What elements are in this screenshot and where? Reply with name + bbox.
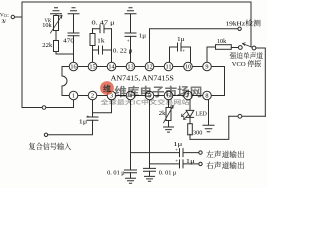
ground below 2k <box>164 121 174 133</box>
capacitor 1u left out <box>180 149 184 157</box>
capacitor 470 <box>68 33 79 36</box>
svg-text:强迫单声道: 强迫单声道 <box>230 51 264 60</box>
svg-text:0. 01 μ: 0. 01 μ <box>107 171 125 177</box>
svg-text:3V: 3V <box>2 20 7 25</box>
node open junction <box>238 114 242 118</box>
svg-text:LED: LED <box>196 112 207 118</box>
svg-text:0. 22 μ: 0. 22 μ <box>113 49 132 55</box>
svg-text:470: 470 <box>63 38 74 44</box>
svg-text:维: 维 <box>103 83 111 94</box>
pin 6 <box>164 91 173 100</box>
svg-text:1μ: 1μ <box>79 119 87 125</box>
ground top of pin13 column <box>125 8 136 33</box>
pin 8 <box>203 91 212 100</box>
pin 15 <box>88 62 97 71</box>
wire to left terminal <box>183 152 199 154</box>
pin 4 <box>126 91 135 100</box>
wire Vcc rail frame right <box>250 2 252 47</box>
wire left channel from pin4 <box>131 152 180 154</box>
svg-text:15: 15 <box>89 64 95 71</box>
svg-text:1μ: 1μ <box>139 34 146 40</box>
LED <box>189 100 191 111</box>
wire Vcc terminal lead <box>15 16 23 18</box>
capacitor 0.01u left <box>125 170 137 173</box>
wire pin5 column down <box>149 100 151 168</box>
pin 11 <box>164 62 173 71</box>
capacitor 1u input <box>87 117 98 120</box>
svg-text:+: + <box>87 115 90 120</box>
wire loop pins 11-10 <box>170 47 191 62</box>
resistor 22k <box>54 41 59 52</box>
svg-text:300: 300 <box>193 131 203 137</box>
wire pin1 down <box>73 100 75 108</box>
pin 9 <box>203 62 212 71</box>
pin 12 <box>145 62 154 71</box>
capacitor 1u pins 11-10 <box>178 43 182 51</box>
ground below pin8 <box>203 100 214 132</box>
wire LED to 300 <box>189 117 191 123</box>
svg-text:0. 47 μ: 0. 47 μ <box>92 21 115 27</box>
switch forced-mono <box>238 46 242 50</box>
wire bottom-left to pin1 <box>22 107 74 109</box>
svg-text:8: 8 <box>205 93 208 100</box>
svg-text:12: 12 <box>146 64 152 71</box>
svg-text:22k: 22k <box>42 43 52 49</box>
wire Vcc rail frame left <box>21 2 23 108</box>
svg-text:全球最大IC中文交易网站: 全球最大IC中文交易网站 <box>101 97 190 106</box>
op-amp U1 AN7415 IC body <box>62 67 225 96</box>
svg-text:1μ: 1μ <box>186 159 195 165</box>
wire Vcc rail frame top <box>22 1 251 3</box>
wire 1u to pin13 <box>130 36 132 62</box>
wire pin15 column <box>92 29 94 63</box>
svg-text:+: + <box>175 148 178 153</box>
svg-text:右声道输出: 右声道输出 <box>206 161 245 170</box>
resistor 2k <box>168 100 170 108</box>
pin 10 <box>184 62 193 71</box>
pin 7 <box>184 91 193 100</box>
ground top of VR column <box>51 8 62 16</box>
resistor VR 10k <box>54 16 59 31</box>
wire pin12 to 19kHz terminal <box>150 29 238 62</box>
pin 2 <box>88 91 97 100</box>
node junction on bottom-left wire <box>42 106 46 110</box>
wire pin3 jog to pin2 column <box>93 100 112 113</box>
pin 3 <box>107 91 116 100</box>
node 19kHz terminal <box>238 27 241 30</box>
svg-text:16: 16 <box>70 64 76 71</box>
wire top loop pins 15-14 <box>93 28 112 30</box>
wire pin2 down to cap <box>92 100 94 117</box>
wire pin4 column down <box>130 100 132 170</box>
svg-text:VCC: VCC <box>0 12 9 18</box>
svg-text:1k: 1k <box>97 39 105 45</box>
svg-text:左声道输出: 左声道输出 <box>206 150 245 159</box>
svg-text:0. 01 μ: 0. 01 μ <box>159 171 177 177</box>
svg-text:2k: 2k <box>159 111 166 117</box>
wire 470 to pin 16 <box>73 36 75 62</box>
pin numbers <box>70 64 208 100</box>
pin 13 <box>126 62 135 71</box>
pin 1 <box>69 91 78 100</box>
wire right net horizontal <box>229 115 265 117</box>
svg-text:14: 14 <box>108 64 115 71</box>
resistor 1k <box>90 34 95 46</box>
capacitor 0.22u <box>99 46 103 54</box>
svg-text:+: + <box>175 160 178 165</box>
wire to right terminal <box>183 163 199 165</box>
svg-text:1: 1 <box>72 93 75 100</box>
svg-text:复合信号输入: 复合信号输入 <box>29 142 72 151</box>
svg-text:9: 9 <box>205 64 208 71</box>
svg-text:10k: 10k <box>42 23 52 29</box>
node input terminal <box>44 133 47 136</box>
ground below 0.01u right <box>145 171 155 181</box>
pin 5 <box>145 91 154 100</box>
pin 14 <box>107 62 116 71</box>
node left output terminal <box>199 151 202 154</box>
wire right channel from pin5 <box>150 163 180 165</box>
svg-text:11: 11 <box>165 64 171 71</box>
capacitor 0.01u right <box>144 168 156 171</box>
svg-text:1μ: 1μ <box>177 37 185 43</box>
svg-text:19kHz检测: 19kHz检测 <box>226 19 262 28</box>
svg-text:10k: 10k <box>217 39 226 45</box>
wire 22k to pin16 column <box>56 52 74 55</box>
value and net labels <box>0 12 226 176</box>
capacitor 1u pin13 <box>125 33 136 36</box>
pin 16 <box>69 62 78 71</box>
resistor 10k <box>216 45 232 50</box>
wire switch to right drop <box>256 48 265 116</box>
wire pin14 column <box>111 29 113 63</box>
resistor 300 <box>188 124 193 135</box>
wire cap to input line <box>48 120 93 135</box>
wire 10k to switch <box>231 47 238 49</box>
ground below 0.01u left <box>126 173 136 183</box>
ground top of 470 column <box>68 8 79 33</box>
wire VR to 22k <box>55 31 57 41</box>
node Vcc terminal <box>11 15 14 18</box>
svg-text:+: + <box>127 40 130 45</box>
svg-text:1μ: 1μ <box>173 142 182 148</box>
wire bottom loop pins 15-14 <box>93 49 112 51</box>
wire right net to 300 bottom <box>190 116 229 139</box>
watermark logo disc <box>100 81 114 95</box>
svg-text:+: + <box>182 49 185 54</box>
wire pin9 to 10k <box>207 47 216 62</box>
IC pin circles <box>69 62 211 100</box>
capacitor 1u right out <box>180 160 184 168</box>
svg-text:VCO 停振: VCO 停振 <box>232 59 262 68</box>
svg-text:10: 10 <box>185 64 191 71</box>
capacitor 0.47u <box>100 25 104 33</box>
svg-text:13: 13 <box>127 64 133 71</box>
svg-text:2: 2 <box>91 93 94 100</box>
node right output terminal <box>199 162 202 165</box>
